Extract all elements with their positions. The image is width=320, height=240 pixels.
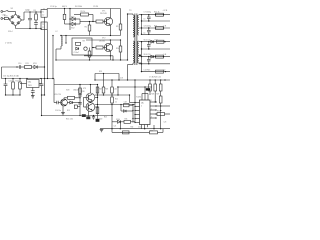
svg-text:FU1: FU1 xyxy=(4,16,8,18)
svg-text:VT2: VT2 xyxy=(102,38,105,40)
svg-text:R27: R27 xyxy=(157,94,160,96)
svg-text:C14 10n: C14 10n xyxy=(55,110,61,112)
svg-text:VD9 C24: VD9 C24 xyxy=(54,94,61,96)
svg-text:−12: −12 xyxy=(163,69,166,71)
svg-text:C21: C21 xyxy=(114,126,117,128)
svg-text:R1: R1 xyxy=(34,10,36,12)
svg-text:2SC945: 2SC945 xyxy=(99,40,105,42)
svg-text:R23: R23 xyxy=(104,117,107,119)
svg-text:R4 150k: R4 150k xyxy=(75,6,82,8)
svg-text:T2: T2 xyxy=(42,24,44,26)
svg-text:R19: R19 xyxy=(99,89,102,91)
svg-text:R22: R22 xyxy=(115,99,118,101)
svg-text:R31: R31 xyxy=(125,119,128,121)
svg-text:(−5 B) R25 C20: (−5 B) R25 C20 xyxy=(149,77,161,79)
svg-text:VD6 C12: VD6 C12 xyxy=(144,54,151,56)
svg-text:C5 R6: C5 R6 xyxy=(93,6,98,8)
svg-text:R11: R11 xyxy=(26,63,29,65)
svg-text:R20: R20 xyxy=(100,118,103,120)
svg-text:R8: R8 xyxy=(83,41,85,43)
svg-text:R26: R26 xyxy=(152,94,155,96)
svg-text:R21 4.3k: R21 4.3k xyxy=(66,119,73,121)
svg-text:C18: C18 xyxy=(120,77,123,79)
svg-text:C8 1000μ: C8 1000μ xyxy=(144,25,151,27)
svg-text:VD1: VD1 xyxy=(71,16,75,18)
svg-text:C13 R15: C13 R15 xyxy=(144,69,151,71)
svg-text:T1: T1 xyxy=(42,12,44,14)
svg-text:1N4148: 1N4148 xyxy=(73,90,79,92)
svg-text:1k: 1k xyxy=(115,101,117,103)
svg-text:R13: R13 xyxy=(154,25,157,27)
svg-text:R10: R10 xyxy=(116,48,119,50)
svg-text:2: 2 xyxy=(141,106,142,108)
svg-text:VD10: VD10 xyxy=(116,119,120,121)
svg-text:C22: C22 xyxy=(138,127,141,129)
svg-text:C23: C23 xyxy=(164,122,167,124)
svg-text:R5 1k: R5 1k xyxy=(81,11,86,13)
svg-text:R16: R16 xyxy=(82,91,85,93)
svg-text:VD5 C11: VD5 C11 xyxy=(144,39,151,41)
svg-text:R33: R33 xyxy=(150,130,153,132)
svg-text:R18: R18 xyxy=(105,89,108,91)
svg-text:L4: L4 xyxy=(144,33,146,35)
svg-text:L3: L3 xyxy=(144,19,146,21)
svg-text:L2: L2 xyxy=(56,31,58,33)
svg-text:(−15 B): (−15 B) xyxy=(5,43,12,45)
svg-text:R6: R6 xyxy=(85,27,87,29)
svg-text:C13 10μ R13 2k DA1: C13 10μ R13 2k DA1 xyxy=(3,75,19,78)
svg-text:R19: R19 xyxy=(99,71,102,73)
svg-text:R9: R9 xyxy=(116,26,118,28)
svg-text:R30: R30 xyxy=(157,111,160,113)
svg-text:2.2: 2.2 xyxy=(42,27,45,29)
svg-text:C9 4n7: C9 4n7 xyxy=(74,52,80,54)
svg-text:VD8: VD8 xyxy=(66,90,69,92)
svg-text:C1: C1 xyxy=(27,10,29,12)
svg-text:VD1-4: VD1-4 xyxy=(8,31,13,33)
svg-text:C3 0.1μ: C3 0.1μ xyxy=(50,6,57,8)
svg-text:C18: C18 xyxy=(124,102,127,104)
svg-text:R15: R15 xyxy=(67,110,70,112)
svg-text:VT3: VT3 xyxy=(83,88,86,90)
svg-text:R14: R14 xyxy=(155,39,158,41)
svg-text:C10: C10 xyxy=(18,63,21,65)
svg-text:+12 B: +12 B xyxy=(163,10,169,12)
svg-text:VD3: VD3 xyxy=(33,63,37,65)
svg-text:C17: C17 xyxy=(71,103,74,105)
svg-text:2SC945: 2SC945 xyxy=(100,13,107,15)
svg-text:C7 1000μ: C7 1000μ xyxy=(144,11,151,13)
svg-text:R12 1k: R12 1k xyxy=(154,11,160,13)
svg-text:2.2: 2.2 xyxy=(42,15,45,17)
svg-text:C13: C13 xyxy=(9,81,12,83)
svg-text:VD2: VD2 xyxy=(71,28,75,30)
svg-text:DA1: DA1 xyxy=(28,81,32,84)
svg-text:7805: 7805 xyxy=(28,85,32,87)
svg-text:R13: R13 xyxy=(16,81,19,83)
svg-text:C16: C16 xyxy=(114,89,117,91)
svg-text:R32: R32 xyxy=(131,127,134,129)
svg-text:TL494: TL494 xyxy=(136,97,141,99)
svg-text:400 V: 400 V xyxy=(62,6,68,8)
